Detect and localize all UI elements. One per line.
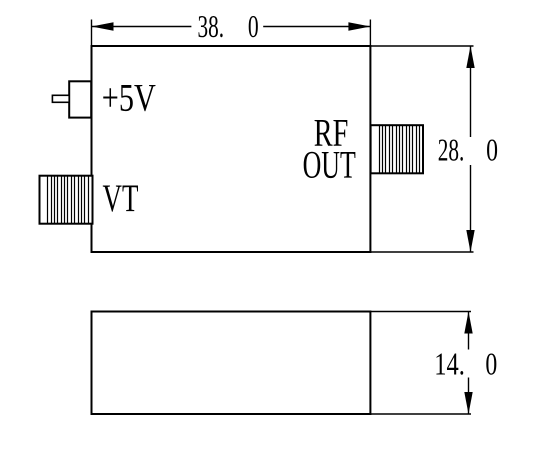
svg-text:38.: 38. [198,8,225,44]
label OUT [303,142,356,186]
dimension 38.0 extension line left [91,20,93,47]
RF OUT connector thread hatch [380,125,420,173]
dimension 14.0 line bottom segment [468,378,470,415]
dimension 38.0 arrow left [92,22,114,30]
dimension 38.0 extension line right [369,20,371,47]
dimension 38.0 line left segment [92,26,192,28]
dimension 14.0 line top segment [468,312,470,350]
svg-text:+5V: +5V [102,75,156,119]
svg-text:OUT: OUT [303,142,356,186]
label RF [314,111,349,155]
dimension text 28. [438,131,465,167]
dimension text 14. [434,345,465,381]
dimension 14.0 extension line bottom [370,413,471,415]
dimension 38.0 line right segment [263,26,370,28]
side body outline (side view) [92,312,371,415]
dimension text 0 [485,345,497,381]
svg-text:0: 0 [248,8,259,44]
dimension text 38. [198,8,225,44]
dimension 14.0 arrow up [464,312,472,334]
VT connector body [40,176,93,224]
dimension 28.0 arrow down [466,230,474,252]
main body outline (top view) [92,46,371,252]
RF OUT connector body [371,125,423,173]
label VT [103,176,139,220]
svg-text:14.: 14. [434,345,465,381]
dimension 28.0 extension line bottom [370,251,473,253]
dimension 14.0 arrow down [464,392,472,414]
dimension 14.0 extension line top [370,311,471,313]
dimension text 0 [248,8,259,44]
dimension 28.0 line top segment [470,46,472,137]
dimension 28.0 extension line top [370,45,473,47]
svg-text:0: 0 [486,131,498,167]
VT connector thread hatch [48,176,89,224]
label +5V [102,75,156,119]
svg-text:28.: 28. [438,131,465,167]
dimension 28.0 arrow up [466,46,474,68]
+5V pin stub [52,95,69,102]
+5V feedthrough pin body [69,81,91,117]
svg-text:VT: VT [103,176,139,220]
dimension 38.0 arrow right [348,22,370,30]
dimension 28.0 line bottom segment [470,165,472,252]
dimension text 0 [486,131,498,167]
svg-text:0: 0 [485,345,497,381]
